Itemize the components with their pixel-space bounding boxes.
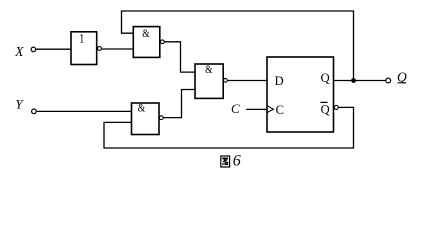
svg-text:Q: Q (397, 69, 407, 84)
input terminal Y (32, 109, 37, 114)
svg-text:&: & (138, 101, 146, 115)
wire inverter to NAND G1 lower input (102, 48, 134, 50)
NAND gate G2 box (195, 62, 223, 98)
output terminal Q (386, 78, 391, 83)
svg-text:Q: Q (321, 102, 330, 116)
svg-text:Q: Q (321, 71, 330, 85)
G3 output bubble (159, 116, 163, 120)
wire Q feedback to G1 upper input (122, 11, 354, 79)
svg-text:C: C (276, 103, 284, 117)
caption glyph 图 (221, 156, 230, 167)
wire Y to NAND G3 upper input (37, 110, 132, 112)
svg-text:&: & (142, 26, 150, 40)
wire X to inverter (36, 48, 71, 50)
inverter gate "1" box (71, 32, 97, 65)
wire G3 output to G2 lower input (164, 90, 196, 118)
wire Qbar feedback to G3 lower input (104, 107, 354, 148)
input terminal X (31, 47, 36, 52)
inverter output bubble (98, 47, 102, 51)
NAND gate G3 box (132, 101, 160, 135)
Qbar output bubble (334, 105, 338, 109)
wire Q output (334, 80, 386, 82)
wire G1 output to G2 upper input (165, 42, 195, 72)
wire G2 output to D input (228, 80, 267, 82)
svg-text:C: C (231, 101, 240, 116)
svg-text:1: 1 (79, 32, 84, 46)
G1 output bubble (161, 40, 165, 44)
label Q output (397, 69, 407, 84)
NAND gate G1 box (133, 26, 160, 57)
svg-text:&: & (205, 62, 213, 76)
pin label Qbar (320, 102, 329, 116)
G2 output bubble (224, 78, 228, 82)
svg-text:X: X (14, 44, 24, 59)
D flip-flop U1 box (267, 57, 334, 132)
svg-text:D: D (275, 74, 284, 88)
junction dot on Q net (351, 78, 356, 83)
svg-text:6: 6 (233, 152, 241, 169)
wire C to clock input (246, 108, 267, 110)
clock edge triangle (267, 106, 273, 113)
